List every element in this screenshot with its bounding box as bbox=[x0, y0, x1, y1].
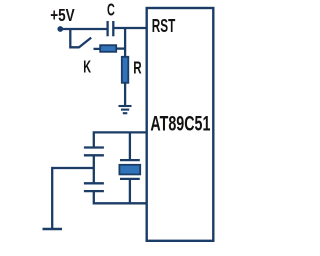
svg-text:+5V: +5V bbox=[50, 7, 75, 26]
wire: capacitor C to RST pin of U1 bbox=[113, 27, 146, 29]
svg-text:C: C bbox=[107, 1, 115, 20]
ground (below R) bbox=[119, 106, 132, 113]
ground (oscillator, single bar) bbox=[43, 228, 63, 230]
node A (supply junction dot) bbox=[57, 26, 63, 32]
crystal Y1 bbox=[119, 160, 140, 179]
wire: node A to capacitor C left plate bbox=[60, 28, 108, 30]
svg-text:RST: RST bbox=[152, 16, 176, 36]
wire: crystal bottom lead bbox=[129, 179, 131, 203]
resistor R bbox=[122, 57, 129, 83]
capacitor C1 (oscillator, top) bbox=[84, 148, 104, 156]
wire: resistor R to ground bbox=[124, 83, 126, 107]
wire: ground drop (left) bbox=[51, 167, 53, 229]
wire: switch branch drop bbox=[70, 29, 79, 47]
wire: crystal top lead bbox=[129, 132, 131, 160]
svg-text:R: R bbox=[133, 58, 141, 78]
capacitor C2 (oscillator, bottom) bbox=[84, 183, 104, 191]
wire: junction down to resistor R bbox=[124, 28, 126, 58]
switch K blade bbox=[79, 38, 92, 48]
wire: C2 bottom to XTAL2 net bbox=[94, 191, 147, 203]
resistor (horizontal, in series with switch K) bbox=[100, 45, 116, 52]
wire: horizontal resistor to junction bbox=[116, 47, 126, 49]
wire: C1 bottom to C2 top (through mid node) bbox=[93, 155, 95, 183]
wire: mid node to ground (left run) bbox=[52, 167, 94, 169]
capacitor C bbox=[108, 21, 114, 36]
svg-text:AT89C51: AT89C51 bbox=[150, 110, 210, 135]
wire: switch fixed contact stub bbox=[94, 48, 102, 50]
svg-text:K: K bbox=[83, 58, 91, 77]
IC U1 AT89C51 bbox=[147, 8, 214, 241]
wire: XTAL1 net (top oscillator wire) bbox=[94, 132, 147, 147]
